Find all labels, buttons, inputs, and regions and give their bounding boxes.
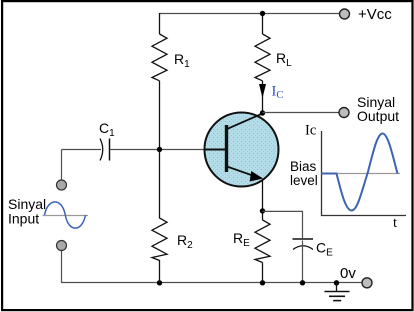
terminal input upper [57,180,67,190]
svg-text:Output: Output [357,108,399,124]
node base junction [157,147,162,152]
transistor base lead inside [205,149,227,151]
node ground junction [334,280,339,285]
node CE bottom [300,280,305,285]
wire emitter to CE branch [263,211,303,238]
resistor RE [255,220,270,263]
input sine icon baseline [43,215,89,217]
wire C1 left lead [62,149,102,151]
node RE bottom [260,280,265,285]
wire R1 bottom lead to base node [159,81,161,150]
node emitter junction [260,208,265,213]
wire R1 top lead [159,13,161,34]
resistor RL [255,34,270,81]
terminal +Vcc [340,9,350,19]
wire CE bottom lead [302,241,304,283]
terminal 0v [362,278,372,288]
svg-text:level: level [290,173,318,188]
graph axes [322,131,407,216]
svg-text:Input: Input [8,211,39,227]
svg-text:+Vcc: +Vcc [358,6,392,23]
svg-text:0v: 0v [340,265,356,282]
wire input vertical lower [61,251,63,284]
graph bias level line [322,173,401,175]
wire bottom rail [62,282,363,284]
transistor collector line [227,114,263,130]
svg-text:t: t [393,215,397,231]
node collector junction [260,110,265,115]
resistor R1 [152,34,167,81]
transistor base bar [225,125,228,172]
capacitor CE [293,238,314,240]
wire top rail [160,13,345,15]
transistor emitter line with arrow [227,167,254,177]
wire C1 right lead to base [110,149,226,151]
input sine icon wave [45,202,86,228]
wire RL bottom lead to collector [262,81,264,113]
terminal input lower [57,241,67,251]
wire emitter down [262,180,264,220]
wire RL top lead [262,14,264,35]
capacitor C1 [100,139,103,161]
wire RE bottom lead [262,263,264,283]
wire output [263,112,340,114]
transistor Q1 body [205,113,279,187]
resistor R2 [152,150,167,284]
node top rail / RL junction [260,11,265,16]
svg-text:Bias: Bias [290,159,317,174]
node R2 bottom [157,280,162,285]
current arrow IC [259,84,266,98]
svg-text:Ic: Ic [305,123,316,139]
wire input vertical upper [61,150,63,181]
graph sine curve [322,134,398,211]
terminal output [339,108,349,118]
ground symbol [336,283,338,292]
